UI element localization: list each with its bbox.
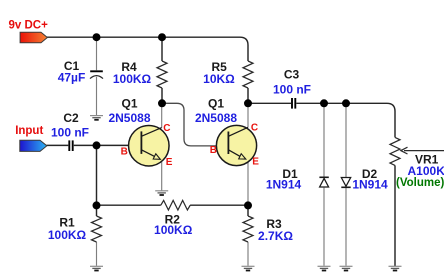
wire R4 top lead [161,37,163,61]
node C3/D1 junction [320,99,328,107]
node R5/Q2 collector junction [244,99,252,107]
svg-text:Q1: Q1 [121,96,137,110]
wire Q2 emitter down to R3 node [247,161,249,206]
wire D2 vertical [345,103,347,265]
transistor Q1 (first) [108,96,172,168]
wire C3 left [248,102,291,104]
wire R1 bottom lead [96,242,98,266]
wire VR1 bottom lead [394,165,396,266]
terminal 9v DC+ [9,20,49,43]
svg-text:B: B [121,146,128,157]
wire R2 right lead [190,204,248,206]
node R4/Q1 collector junction [158,99,166,107]
svg-text:2.7KΩ: 2.7KΩ [258,229,293,243]
resistor R4 [157,61,167,88]
resistor R2 [161,200,190,210]
svg-text:C2: C2 [63,111,79,125]
wire C3 right to VR1 [296,103,395,137]
svg-text:C: C [251,122,258,133]
svg-text:10KΩ: 10KΩ [203,72,235,86]
wire R5 bottom lead [247,88,249,103]
node input/Q1 base junction [93,141,101,149]
svg-text:100 nF: 100 nF [273,83,311,97]
svg-text:100KΩ: 100KΩ [113,72,152,86]
resistor R3 [243,216,253,242]
wire Q2 collector up [247,103,249,127]
wire C1 bottom lead [96,77,98,116]
wire R4 bottom lead [161,88,163,103]
svg-text:100KΩ: 100KΩ [48,228,87,242]
wire input to C2 [47,144,69,146]
wire R3 top lead [247,205,249,216]
capacitor C2 [51,111,89,151]
node supply/C1 junction [93,33,101,41]
wire C1 top lead [96,37,98,70]
svg-text:C3: C3 [284,68,300,82]
svg-text:B: B [210,145,217,156]
svg-text:9v DC+: 9v DC+ [9,20,49,32]
capacitor C1 [58,59,103,85]
svg-text:47µF: 47µF [58,71,86,85]
svg-text:1N914: 1N914 [266,178,302,192]
transistor Q1 (second) [195,96,259,167]
resistor R1 [92,216,102,242]
wire supply rail [46,37,249,61]
svg-text:2N5088: 2N5088 [195,111,237,125]
ground D1 [318,266,331,270]
wire R2 left lead [97,204,161,206]
svg-text:100KΩ: 100KΩ [154,223,193,237]
ground R1 [90,266,103,270]
capacitor C3 [273,68,311,109]
ground VR1 [389,266,402,270]
wire C2 to Q1 base [74,144,142,146]
wire Q1 emitter down [161,161,163,191]
ground D2 [340,266,353,270]
diode D1 [266,167,329,192]
node C3/D2 junction [342,99,350,107]
diode D2 [341,167,388,192]
ground Q1 emitter [155,191,168,195]
node supply/R4 junction [158,33,166,41]
svg-text:E: E [166,157,173,168]
node R1/R2 junction [93,201,101,209]
svg-text:2N5088: 2N5088 [108,111,150,125]
wire R1 top lead [96,205,98,216]
svg-text:100 nF: 100 nF [51,126,89,140]
terminal Input [15,125,47,151]
svg-text:Input: Input [15,125,43,137]
wire D1 vertical [323,103,325,265]
ground R3 [242,266,255,270]
svg-text:(Volume): (Volume) [396,177,444,189]
wire input node down to R1 node [96,145,98,205]
wire R4-bottom node to Q2 base [162,103,228,146]
wire R3 bottom lead [247,242,249,266]
wire Q1 collector up [161,103,163,127]
ground below C1 [90,116,103,120]
resistor R5 [243,61,253,88]
node R2/R3 junction [244,201,252,209]
svg-text:Q1: Q1 [208,96,224,110]
potentiometer VR1 [390,137,444,188]
svg-text:C: C [163,123,170,134]
svg-text:E: E [252,157,259,168]
svg-text:1N914: 1N914 [352,178,388,192]
